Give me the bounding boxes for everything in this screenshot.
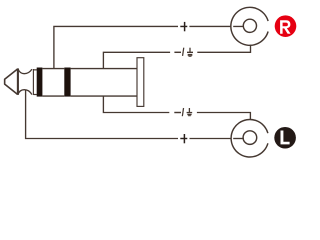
badge R (red) — [275, 15, 297, 37]
plus label R channel — [180, 22, 187, 31]
earth symbol L ground — [187, 108, 193, 116]
shaft bottom edge between collar and band1 — [34, 94, 37, 96]
wire: tip to L plus (drop and left segment) — [26, 90, 178, 139]
wire: L plus middle segment — [190, 138, 231, 140]
wire: R plus segment into RCA pin — [233, 25, 244, 27]
RCA connector L outer body (arc open toward badge) — [231, 120, 268, 158]
slash L ground — [182, 108, 183, 116]
plug flange — [137, 58, 144, 107]
insulator band 1 — [37, 68, 43, 97]
wire: R plus middle segment — [189, 25, 231, 27]
wire: ring to R plus (riser and left segment) — [54, 26, 178, 68]
ring section top edge — [42, 68, 64, 70]
earth symbol R ground — [187, 48, 193, 57]
RCA connector L center pin — [243, 131, 257, 145]
RCA connector R center pin — [243, 19, 256, 32]
wire: sleeve to R ground (riser and left segment) — [103, 52, 170, 68]
sleeve barrel bottom edge — [71, 95, 137, 97]
TRS plug tip cone outline — [5, 69, 18, 95]
sleeve barrel top edge — [71, 68, 137, 70]
wire: sleeve to L ground (drop and left segment) — [103, 96, 169, 113]
TRS plug collar right edge — [32, 69, 34, 95]
ring section bottom edge — [42, 95, 64, 97]
insulator band 2 — [64, 68, 70, 97]
wire: L ground right segment into RCA body — [197, 113, 251, 120]
RCA connector R outer body (arc open toward badge) — [231, 7, 268, 45]
TRS plug neck groove (top profile) — [18, 69, 32, 74]
badge L (black) — [274, 127, 296, 149]
plus label L channel — [180, 134, 187, 143]
wire: R ground right segment into RCA body — [197, 45, 250, 53]
shaft top edge between collar and band1 — [34, 69, 37, 71]
slash R ground — [183, 48, 184, 56]
TRS plug tip right edge — [17, 68, 19, 94]
TRS plug neck groove (bottom profile) — [18, 90, 32, 95]
minus label R ground — [174, 51, 181, 53]
wire: L plus segment into RCA pin — [233, 138, 244, 140]
minus label L ground — [174, 112, 181, 114]
badge R letter — [280, 20, 291, 34]
badge L letter — [281, 131, 290, 145]
